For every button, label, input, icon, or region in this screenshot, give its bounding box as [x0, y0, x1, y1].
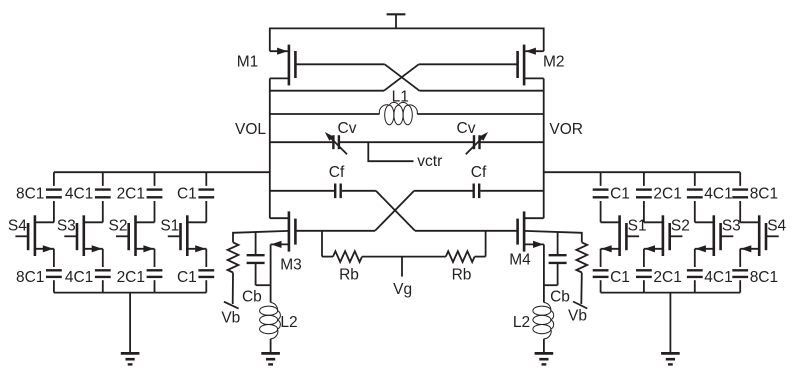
- label Vb left: [221, 309, 240, 326]
- node VOR vertical wire: [543, 78, 545, 218]
- svg-text:S2: S2: [671, 218, 690, 235]
- label 4C1 bottom: [704, 269, 732, 286]
- label 2C1 bottom: [653, 269, 681, 286]
- wire Cf left segment: [270, 190, 334, 192]
- label Cb right: [550, 289, 570, 306]
- svg-text:S1: S1: [160, 218, 179, 235]
- label S3: [57, 218, 76, 235]
- svg-text:S3: S3: [57, 218, 76, 235]
- wire L1 rail left: [270, 113, 380, 115]
- inductor L1: [379, 102, 417, 124]
- label 8C1 bottom: [750, 269, 778, 286]
- wire M3 gate rail: [295, 230, 375, 232]
- label L2 right: [513, 314, 530, 331]
- wire M1 gate: [295, 63, 384, 65]
- wire branch 4C1 top: [102, 172, 104, 186]
- svg-text:Rb: Rb: [339, 266, 359, 283]
- wire M4 source down: [543, 244, 545, 302]
- svg-text:Cb: Cb: [550, 289, 570, 306]
- label S2: [671, 218, 690, 235]
- label 8C1 bottom: [16, 269, 44, 286]
- svg-text:C1: C1: [610, 269, 630, 286]
- svg-text:Cf: Cf: [329, 164, 345, 181]
- wire M3 source down: [270, 244, 272, 302]
- svg-text:2C1: 2C1: [653, 269, 681, 286]
- label VOL: [235, 121, 266, 138]
- capacitor 2C1 bottom: [147, 270, 163, 277]
- wire switch to 8C1 bottom: [739, 249, 741, 267]
- svg-text:Vb: Vb: [568, 308, 587, 325]
- wire 8C1 bottom to rail: [53, 280, 55, 292]
- svg-text:vctr: vctr: [417, 153, 442, 170]
- wire 4C1 to switch: [694, 201, 696, 222]
- svg-text:2C1: 2C1: [653, 186, 681, 203]
- svg-text:2C1: 2C1: [117, 269, 145, 286]
- resistor Rb left: [333, 251, 362, 262]
- wire Vg stub: [401, 257, 403, 277]
- label 8C1 top: [750, 186, 778, 203]
- wire cross-couple diagonal Cf-left to M4 gate: [376, 191, 415, 231]
- ground under L2 right: [535, 353, 554, 364]
- switch transistor S1: [168, 215, 207, 256]
- wire drain rail right: [419, 90, 543, 92]
- capacitor 4C1 top: [687, 190, 703, 198]
- wire M4 gate rail: [415, 230, 518, 232]
- wire 8C1 to switch: [53, 201, 55, 222]
- wire M3 body bias line: [233, 231, 289, 243]
- wire 2C1 bottom to rail: [643, 280, 645, 292]
- wire 2C1 bottom to rail: [154, 280, 156, 292]
- svg-text:S2: S2: [109, 218, 128, 235]
- node VOL vertical wire: [269, 78, 271, 218]
- capacitor 8C1 bottom: [732, 270, 748, 277]
- wire 2C1 to switch: [643, 201, 645, 222]
- wire gate to Rb right: [485, 231, 487, 257]
- label 4C1 bottom: [65, 269, 93, 286]
- wire switch to C1 bottom: [600, 249, 602, 267]
- switch transistor S4: [15, 215, 54, 256]
- label S3: [722, 218, 741, 235]
- svg-text:M3: M3: [280, 256, 302, 273]
- ground under L2 left: [261, 353, 280, 364]
- svg-text:8C1: 8C1: [750, 269, 778, 286]
- switch transistor S3: [64, 215, 103, 256]
- label Cf left: [329, 164, 345, 181]
- capacitor 2C1 top: [147, 190, 163, 198]
- capacitor Cb left: [247, 232, 271, 285]
- wire C1 bottom to rail: [205, 280, 207, 292]
- resistor Vb bias right: [576, 242, 587, 272]
- wire Cv rail mid: [339, 141, 474, 143]
- capacitor Cf right: [474, 184, 480, 199]
- resistor Vb bias left: [228, 242, 239, 272]
- svg-text:4C1: 4C1: [65, 186, 93, 203]
- wire drain rail left: [270, 90, 384, 92]
- wire 4C1 bottom to rail: [102, 280, 104, 292]
- label Cv right: [457, 120, 476, 137]
- wire 8C1 to switch: [739, 201, 741, 222]
- svg-text:C1: C1: [610, 186, 630, 203]
- wire Cv rail right: [480, 141, 544, 143]
- terminal Vb left: [224, 273, 239, 309]
- svg-text:M1: M1: [237, 54, 259, 71]
- ground left bank: [121, 353, 140, 364]
- transistor M4: [518, 211, 544, 251]
- label Rb left: [339, 266, 359, 283]
- wire Cv rail left: [270, 141, 333, 143]
- label Rb right: [452, 266, 472, 283]
- svg-text:8C1: 8C1: [16, 186, 44, 203]
- wire VOL to left cap bank: [54, 171, 270, 173]
- svg-text:S4: S4: [767, 218, 786, 235]
- wire branch C1 top: [600, 172, 602, 186]
- wire top supply rail: [270, 27, 544, 29]
- svg-text:L2: L2: [280, 314, 297, 331]
- wire L2 right to ground: [543, 339, 545, 354]
- wire switch to 4C1 bottom: [102, 249, 104, 267]
- label S1: [160, 218, 179, 235]
- label VOR: [549, 121, 583, 138]
- wire C1 to switch: [205, 201, 207, 222]
- label C1 bottom: [610, 269, 630, 286]
- power supply VDD symbol: [387, 14, 406, 28]
- label Cv left: [338, 120, 357, 137]
- svg-text:4C1: 4C1: [65, 269, 93, 286]
- svg-text:Cb: Cb: [242, 289, 262, 306]
- label vctr: [417, 153, 442, 170]
- label 4C1 top: [704, 186, 732, 203]
- wire left bank bottom rail: [54, 292, 206, 294]
- wire L1 rail right: [417, 113, 544, 115]
- label M2: [543, 54, 565, 71]
- wire branch 8C1 top: [53, 172, 55, 186]
- wire 4C1 bottom to rail: [694, 280, 696, 292]
- transistor M1: [270, 28, 296, 86]
- wire cross-couple diagonal Cf-right to M3 gate: [375, 191, 414, 231]
- transistor M2: [518, 28, 544, 86]
- svg-text:Vg: Vg: [393, 281, 412, 298]
- label Vg: [393, 281, 412, 298]
- svg-text:C1: C1: [177, 269, 197, 286]
- capacitor 4C1 bottom: [687, 270, 703, 277]
- svg-text:L1: L1: [392, 88, 409, 105]
- wire branch 2C1 top: [154, 172, 156, 186]
- wire 2C1 to switch: [154, 201, 156, 222]
- wire Cf right segment: [480, 190, 543, 192]
- wire C1 to switch: [600, 201, 602, 222]
- label C1 top: [610, 186, 630, 203]
- svg-text:VOR: VOR: [549, 121, 583, 138]
- wire branch 4C1 top: [694, 172, 696, 186]
- label C1 top: [177, 186, 197, 203]
- svg-text:S4: S4: [8, 218, 27, 235]
- capacitor 8C1 top: [46, 190, 62, 198]
- svg-text:Cv: Cv: [338, 120, 357, 137]
- label S4: [767, 218, 786, 235]
- capacitor 4C1 bottom: [95, 270, 111, 277]
- switch transistor S4: [740, 215, 779, 256]
- capacitor C1 top: [593, 190, 609, 198]
- svg-text:L2: L2: [513, 314, 530, 331]
- wire gate to Rb left: [321, 231, 323, 257]
- transistor M3: [270, 211, 296, 251]
- switch transistor S2: [116, 215, 155, 256]
- wire L2 left to ground: [270, 339, 272, 354]
- wire switch to 4C1 bottom: [694, 249, 696, 267]
- label L1: [392, 88, 409, 105]
- wire M4 body bias line: [524, 231, 582, 243]
- capacitor C1 bottom: [198, 270, 214, 277]
- capacitor 2C1 top: [636, 190, 652, 198]
- capacitor 8C1 top: [732, 190, 748, 198]
- svg-text:Vb: Vb: [221, 309, 240, 326]
- label S4: [8, 218, 27, 235]
- label M1: [237, 54, 259, 71]
- inductor L2 right: [533, 303, 554, 339]
- wire vctr tap: [368, 142, 413, 161]
- wire 4C1 to switch: [102, 201, 104, 222]
- svg-text:8C1: 8C1: [750, 186, 778, 203]
- varactor Cv right: [466, 132, 488, 154]
- wire M2 gate: [419, 63, 518, 65]
- terminal Vb right: [573, 273, 587, 309]
- label L2 left: [280, 314, 297, 331]
- label Cb left: [242, 289, 262, 306]
- svg-text:VOL: VOL: [235, 121, 266, 138]
- varactor Cv left: [325, 132, 347, 154]
- label M3: [280, 256, 302, 273]
- switch transistor S1: [601, 215, 640, 256]
- wire switch to 2C1 bottom: [154, 249, 156, 267]
- label S1: [628, 218, 647, 235]
- label 8C1 top: [16, 186, 44, 203]
- wire cross-couple diagonal gate1-drain2: [385, 64, 420, 90]
- svg-text:Cv: Cv: [457, 120, 476, 137]
- capacitor C1 top: [198, 190, 214, 198]
- capacitor 4C1 top: [95, 190, 111, 198]
- svg-text:4C1: 4C1: [704, 269, 732, 286]
- wire switch to C1 bottom: [205, 249, 207, 267]
- wire branch 2C1 top: [643, 172, 645, 186]
- wire C1 bottom to rail: [600, 280, 602, 292]
- svg-text:8C1: 8C1: [16, 269, 44, 286]
- ground right bank: [661, 353, 680, 364]
- resistor Rb right: [446, 251, 475, 262]
- wire Rb rail center: [362, 256, 446, 258]
- label 2C1 bottom: [117, 269, 145, 286]
- svg-text:2C1: 2C1: [117, 186, 145, 203]
- capacitor C1 bottom: [593, 270, 609, 277]
- svg-text:S3: S3: [722, 218, 741, 235]
- label 4C1 top: [65, 186, 93, 203]
- wire Cf left to cross: [342, 190, 376, 192]
- svg-text:4C1: 4C1: [704, 186, 732, 203]
- label S2: [109, 218, 128, 235]
- capacitor 2C1 bottom: [636, 270, 652, 277]
- wire Cf right to cross: [414, 190, 472, 192]
- switch transistor S2: [644, 215, 683, 256]
- wire Rb rail lead left: [322, 256, 333, 258]
- wire switch to 8C1 bottom: [53, 249, 55, 267]
- svg-text:Rb: Rb: [452, 266, 472, 283]
- wire branch 8C1 top: [739, 172, 741, 186]
- wire branch C1 top: [205, 172, 207, 186]
- wire left bank ground stem: [129, 293, 131, 354]
- svg-text:Cf: Cf: [471, 164, 487, 181]
- label C1 bottom: [177, 269, 197, 286]
- inductor L2 left: [260, 303, 281, 339]
- svg-text:C1: C1: [177, 186, 197, 203]
- svg-text:M2: M2: [543, 54, 565, 71]
- label 2C1 top: [117, 186, 145, 203]
- wire VOR to right cap bank: [544, 171, 741, 173]
- svg-text:M4: M4: [509, 252, 531, 269]
- wire Rb rail lead right: [475, 256, 486, 258]
- wire right bank ground stem: [669, 293, 671, 354]
- label Cf right: [471, 164, 487, 181]
- wire 8C1 bottom to rail: [739, 280, 741, 292]
- switch transistor S3: [695, 215, 734, 256]
- capacitor 8C1 bottom: [46, 270, 62, 277]
- wire cross-couple diagonal gate2-drain1: [384, 64, 419, 90]
- wire right bank bottom rail: [601, 292, 741, 294]
- label 2C1 top: [653, 186, 681, 203]
- capacitor Cb right: [544, 232, 567, 285]
- label Vb right: [568, 308, 587, 325]
- label M4: [509, 252, 531, 269]
- wire switch to 2C1 bottom: [643, 249, 645, 267]
- capacitor Cf left: [335, 184, 341, 199]
